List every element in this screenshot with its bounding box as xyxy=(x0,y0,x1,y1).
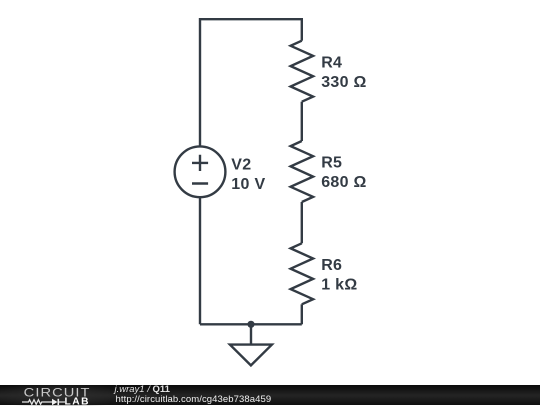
logo diode symbol xyxy=(52,398,58,404)
voltage source V2 circle body xyxy=(175,146,226,197)
svg-text:1 kΩ: 1 kΩ xyxy=(321,277,357,294)
resistor R6 zigzag xyxy=(291,243,314,304)
wire right vertical segment (R4 pin 2 to R5 pin 1) xyxy=(301,102,303,141)
wire top horizontal xyxy=(200,18,302,20)
wire right vertical segment (R6 pin 2 to bottom node) xyxy=(301,304,303,324)
footer url line xyxy=(116,395,272,404)
footer credit line username / circuit name xyxy=(115,385,170,394)
svg-text:R5: R5 xyxy=(321,155,342,172)
wire left vertical upper (node to V2 plus terminal) xyxy=(199,18,201,146)
footer bar xyxy=(0,385,540,406)
svg-text:LAB: LAB xyxy=(65,396,90,406)
V2 plus sign xyxy=(192,155,208,171)
svg-text:V2: V2 xyxy=(231,157,251,174)
CircuitLab logo xyxy=(0,385,110,406)
V2 minus sign xyxy=(192,182,208,184)
ground lead wire xyxy=(250,324,252,344)
wire bottom horizontal xyxy=(200,323,302,325)
resistor R5 zigzag xyxy=(291,141,314,202)
logo wire to LAB xyxy=(59,401,65,403)
wire right vertical segment (top node to R4 pin 1) xyxy=(301,18,303,41)
resistor R4 zigzag xyxy=(291,41,314,102)
svg-text:R4: R4 xyxy=(321,54,342,71)
logo resistor zigzag and wire xyxy=(22,399,52,404)
svg-text:680 Ω: 680 Ω xyxy=(321,174,366,191)
wire right vertical segment (R5 pin 2 to R6 pin 1) xyxy=(301,202,303,243)
node junction dot xyxy=(247,321,254,328)
svg-text:R6: R6 xyxy=(321,257,342,274)
svg-text:330 Ω: 330 Ω xyxy=(321,74,366,91)
wire left vertical lower (V2 minus terminal to bottom node) xyxy=(199,197,201,324)
ground symbol triangle xyxy=(230,345,272,366)
svg-text:10 V: 10 V xyxy=(231,176,265,193)
